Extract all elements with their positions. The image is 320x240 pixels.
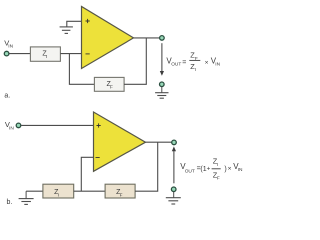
wire ZI to ZF with junction (b) bbox=[74, 190, 105, 192]
formula VOUT = (1 + ZI/ZF) x VIN (b) bbox=[180, 157, 243, 181]
svg-text:OUT: OUT bbox=[185, 168, 195, 174]
wire opamp output (b) bbox=[146, 141, 172, 143]
output terminal (a) bbox=[160, 36, 165, 41]
op-amp U2 (b) bbox=[94, 112, 146, 171]
svg-text:I: I bbox=[217, 162, 218, 167]
svg-text:=: = bbox=[182, 60, 186, 67]
ground at output (a) bbox=[155, 87, 168, 98]
node VIN label (b) bbox=[5, 120, 14, 131]
svg-text:a.: a. bbox=[4, 93, 10, 100]
formula VOUT = ZF/ZI x VIN (a) bbox=[166, 51, 220, 72]
svg-text:F: F bbox=[217, 176, 220, 181]
svg-text:OUT: OUT bbox=[171, 61, 181, 67]
impedance ZI (a) bbox=[30, 47, 60, 61]
impedance ZF (b) bbox=[105, 184, 135, 198]
svg-text:I: I bbox=[195, 67, 196, 72]
op-amp U1 (a) bbox=[82, 7, 134, 69]
impedance ZI (b) bbox=[43, 184, 74, 198]
wire ground to non-inverting input (a) bbox=[67, 21, 82, 26]
wire inverting input to feedback junction (b) bbox=[81, 157, 94, 191]
VOUT arrow down (a) bbox=[160, 43, 164, 76]
node VIN label (a) bbox=[4, 39, 13, 50]
svg-text:×: × bbox=[205, 59, 209, 66]
output terminal (b) bbox=[172, 140, 177, 145]
svg-text:I: I bbox=[58, 192, 59, 197]
svg-text:b.: b. bbox=[7, 199, 13, 206]
wire ZI to inverting input (a) bbox=[60, 53, 82, 55]
wire VIN to non-inverting input (b) bbox=[21, 124, 94, 126]
svg-text:+: + bbox=[207, 166, 211, 173]
wire VIN to ZI (a) bbox=[9, 53, 30, 55]
wire junction down to ZF (a) bbox=[69, 54, 94, 85]
impedance ZF (a) bbox=[94, 77, 124, 91]
svg-text:IN: IN bbox=[215, 62, 220, 68]
svg-text:IN: IN bbox=[8, 43, 13, 49]
ground at output (b) bbox=[166, 192, 181, 204]
wire ground to ZI (b) bbox=[26, 190, 43, 192]
VOUT arrow up (b) bbox=[172, 146, 176, 183]
svg-text:F: F bbox=[120, 192, 123, 197]
ground at non-inverting input (a) bbox=[60, 27, 73, 34]
ground at ZI (b) bbox=[19, 191, 34, 204]
input terminal (b) bbox=[16, 123, 21, 128]
wire opamp output (a) bbox=[134, 37, 160, 39]
ground terminal (a) bbox=[160, 82, 165, 87]
svg-text:IN: IN bbox=[9, 126, 14, 132]
svg-text:IN: IN bbox=[238, 167, 243, 173]
wire ZF to output node (b) bbox=[135, 142, 158, 191]
svg-text:I: I bbox=[46, 54, 47, 59]
svg-text:): ) bbox=[224, 166, 226, 173]
wire ZF to output node (a) bbox=[124, 38, 146, 84]
input terminal (a) bbox=[4, 51, 9, 56]
svg-text:F: F bbox=[110, 85, 113, 90]
svg-text:×: × bbox=[228, 166, 232, 173]
ground terminal (b) bbox=[171, 187, 176, 192]
